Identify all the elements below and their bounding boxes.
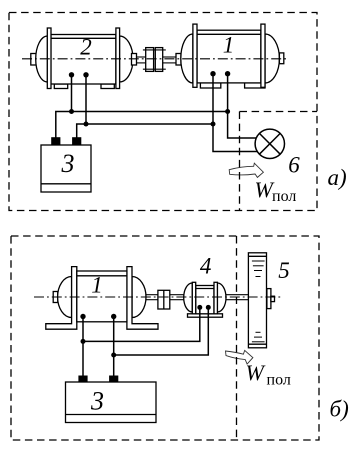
machine 2 left foot (54, 84, 67, 89)
battery 3 (figure b) (66, 382, 157, 423)
battery 3b left terminal post (79, 376, 87, 382)
machine 2 left bearing plate (47, 28, 51, 89)
machine 4 right bearing plate (214, 282, 217, 314)
junction dot on upper bus at machine 1 (225, 109, 230, 114)
wire: lower bus junction to lamp bottom lead (213, 124, 258, 152)
machine 2 left end dome (36, 36, 48, 82)
junction dot on lower bus at machine 2 (84, 122, 89, 127)
svg-text:6: 6 (288, 153, 300, 178)
svg-text:3: 3 (61, 149, 75, 178)
machine 2 right foot (101, 84, 114, 89)
svg-text:пол: пол (267, 371, 291, 388)
rotation arrow Wpol (figure b) (226, 350, 253, 364)
machine 1 right end dome (265, 34, 279, 83)
wire: machine 1 left terminal drop (212, 74, 214, 124)
machine 4 left terminal (197, 305, 202, 310)
coupling flange right (155, 48, 162, 72)
wire: left junction to machine 4 left terminal (83, 307, 200, 341)
machine 1b right terminal (111, 314, 116, 319)
wire: machine 2 right terminal drop (85, 75, 87, 124)
flywheel hub (267, 289, 271, 309)
svg-text:б): б) (330, 397, 349, 422)
coupling shaft right segment (163, 57, 177, 63)
machine 1b right bearing plate with foot (127, 267, 158, 330)
svg-text:W: W (246, 360, 266, 385)
machine 1b body top inner line (77, 275, 127, 277)
machine 4 right terminal (206, 305, 211, 310)
wire: battery 3 plus to upper bus (figure a) (56, 112, 228, 138)
machine 1 left bearing plate (193, 24, 197, 87)
machine 2 left shaft stub (31, 54, 36, 66)
junction dot on upper bus at machine 2 (69, 109, 74, 114)
coupling bolt line bottom (143, 68, 166, 70)
machine 2 right end dome (120, 36, 134, 82)
lamp 6 (255, 129, 284, 158)
svg-text:1: 1 (91, 272, 103, 297)
machine 1 right bearing plate (261, 24, 265, 87)
battery 3 (figure a) (41, 145, 91, 192)
svg-text:4: 4 (200, 254, 212, 279)
machine 2 body (51, 35, 116, 85)
machine 2 left terminal (69, 72, 74, 77)
machine 1b right end dome (132, 277, 146, 318)
svg-text:а): а) (328, 165, 347, 190)
wire: machine 1b right terminal to battery (113, 317, 115, 377)
machine 1 (motor) (176, 24, 284, 88)
shaft right of coupling (figure b) (170, 295, 185, 300)
machine 2 (generator) (31, 28, 133, 89)
machine 4 body (196, 286, 214, 314)
machine 4 left end dome (184, 283, 193, 312)
rotation arrow Wpol (figure a) (229, 163, 263, 177)
wire: machine 1 right terminal drop (227, 74, 229, 112)
flywheel hub stub (271, 296, 275, 301)
machine 4 right end dome (217, 283, 226, 312)
machine 1 left shaft stub (176, 54, 181, 66)
machine 2 right shaft stub (132, 54, 137, 66)
inner dashed partition line (figure b) (236, 236, 238, 440)
shaft left of coupling (figure b) (146, 295, 158, 300)
machine 1 (figure b) (46, 267, 158, 330)
machine 1 body top inner line (197, 33, 261, 35)
machine 1 left terminal (210, 71, 215, 76)
machine 1 left foot (200, 83, 220, 88)
battery 3 left terminal post (52, 138, 60, 145)
coupling flange left (146, 48, 154, 72)
machine 1b left shaft stub (53, 292, 58, 303)
machine 1b left bearing plate with foot (46, 267, 77, 330)
shaft axis centerline of figure b (34, 296, 281, 298)
battery 3b right terminal post (110, 376, 118, 382)
svg-text:5: 5 (278, 258, 290, 283)
machine 4 left bearing plate (192, 282, 195, 314)
shaft to flywheel (figure b) (226, 295, 249, 300)
machine 1 right shaft stub (279, 53, 283, 64)
flywheel shading ticks (252, 261, 265, 342)
junction dot right (figure b) (111, 353, 116, 358)
wire: machine 1b left terminal to battery (82, 317, 84, 377)
machine 2 body top inner line (51, 37, 116, 39)
outer dashed border of figure a (9, 13, 317, 211)
wire: right junction to machine 4 right terminal (114, 307, 209, 355)
machine 2 right bearing plate (116, 28, 120, 89)
coupling bolt line top (143, 49, 166, 51)
machine 1 right terminal (225, 71, 230, 76)
junction dot left (figure b) (81, 339, 86, 344)
machine 1b left end dome (58, 277, 72, 318)
coupling (figure b) (158, 290, 170, 309)
svg-text:1: 1 (223, 32, 235, 57)
machine 4 base plate (188, 314, 223, 317)
machine 1b body (77, 271, 127, 322)
machine 4 (small motor) (184, 282, 226, 317)
coupling divider line (163, 290, 165, 309)
flywheel 5 (248, 253, 274, 348)
machine 1 body (197, 30, 261, 83)
machine 1 right foot (245, 83, 265, 88)
coupling shaft left segment (136, 57, 146, 63)
shaft axis centerline of figure a (22, 58, 289, 60)
junction dot on lower bus at machine 1 (211, 122, 216, 127)
machine 2 right terminal (83, 72, 88, 77)
wire: battery 3 minus to lower bus (figure a) (77, 124, 213, 138)
svg-text:2: 2 (80, 35, 92, 60)
wire: machine 2 left terminal drop (71, 75, 73, 112)
battery 3 right terminal post (73, 138, 81, 145)
machine 1 left end dome (181, 34, 193, 83)
svg-text:пол: пол (272, 188, 296, 205)
machine 1b left terminal (80, 314, 85, 319)
svg-text:3: 3 (90, 387, 104, 416)
outer dashed border of figure b (11, 236, 319, 440)
machine 4 body top inner line (196, 288, 214, 290)
wire: upper bus junction to lamp top lead (228, 112, 257, 139)
inner dashed box around lamp (figure a) (240, 112, 318, 211)
